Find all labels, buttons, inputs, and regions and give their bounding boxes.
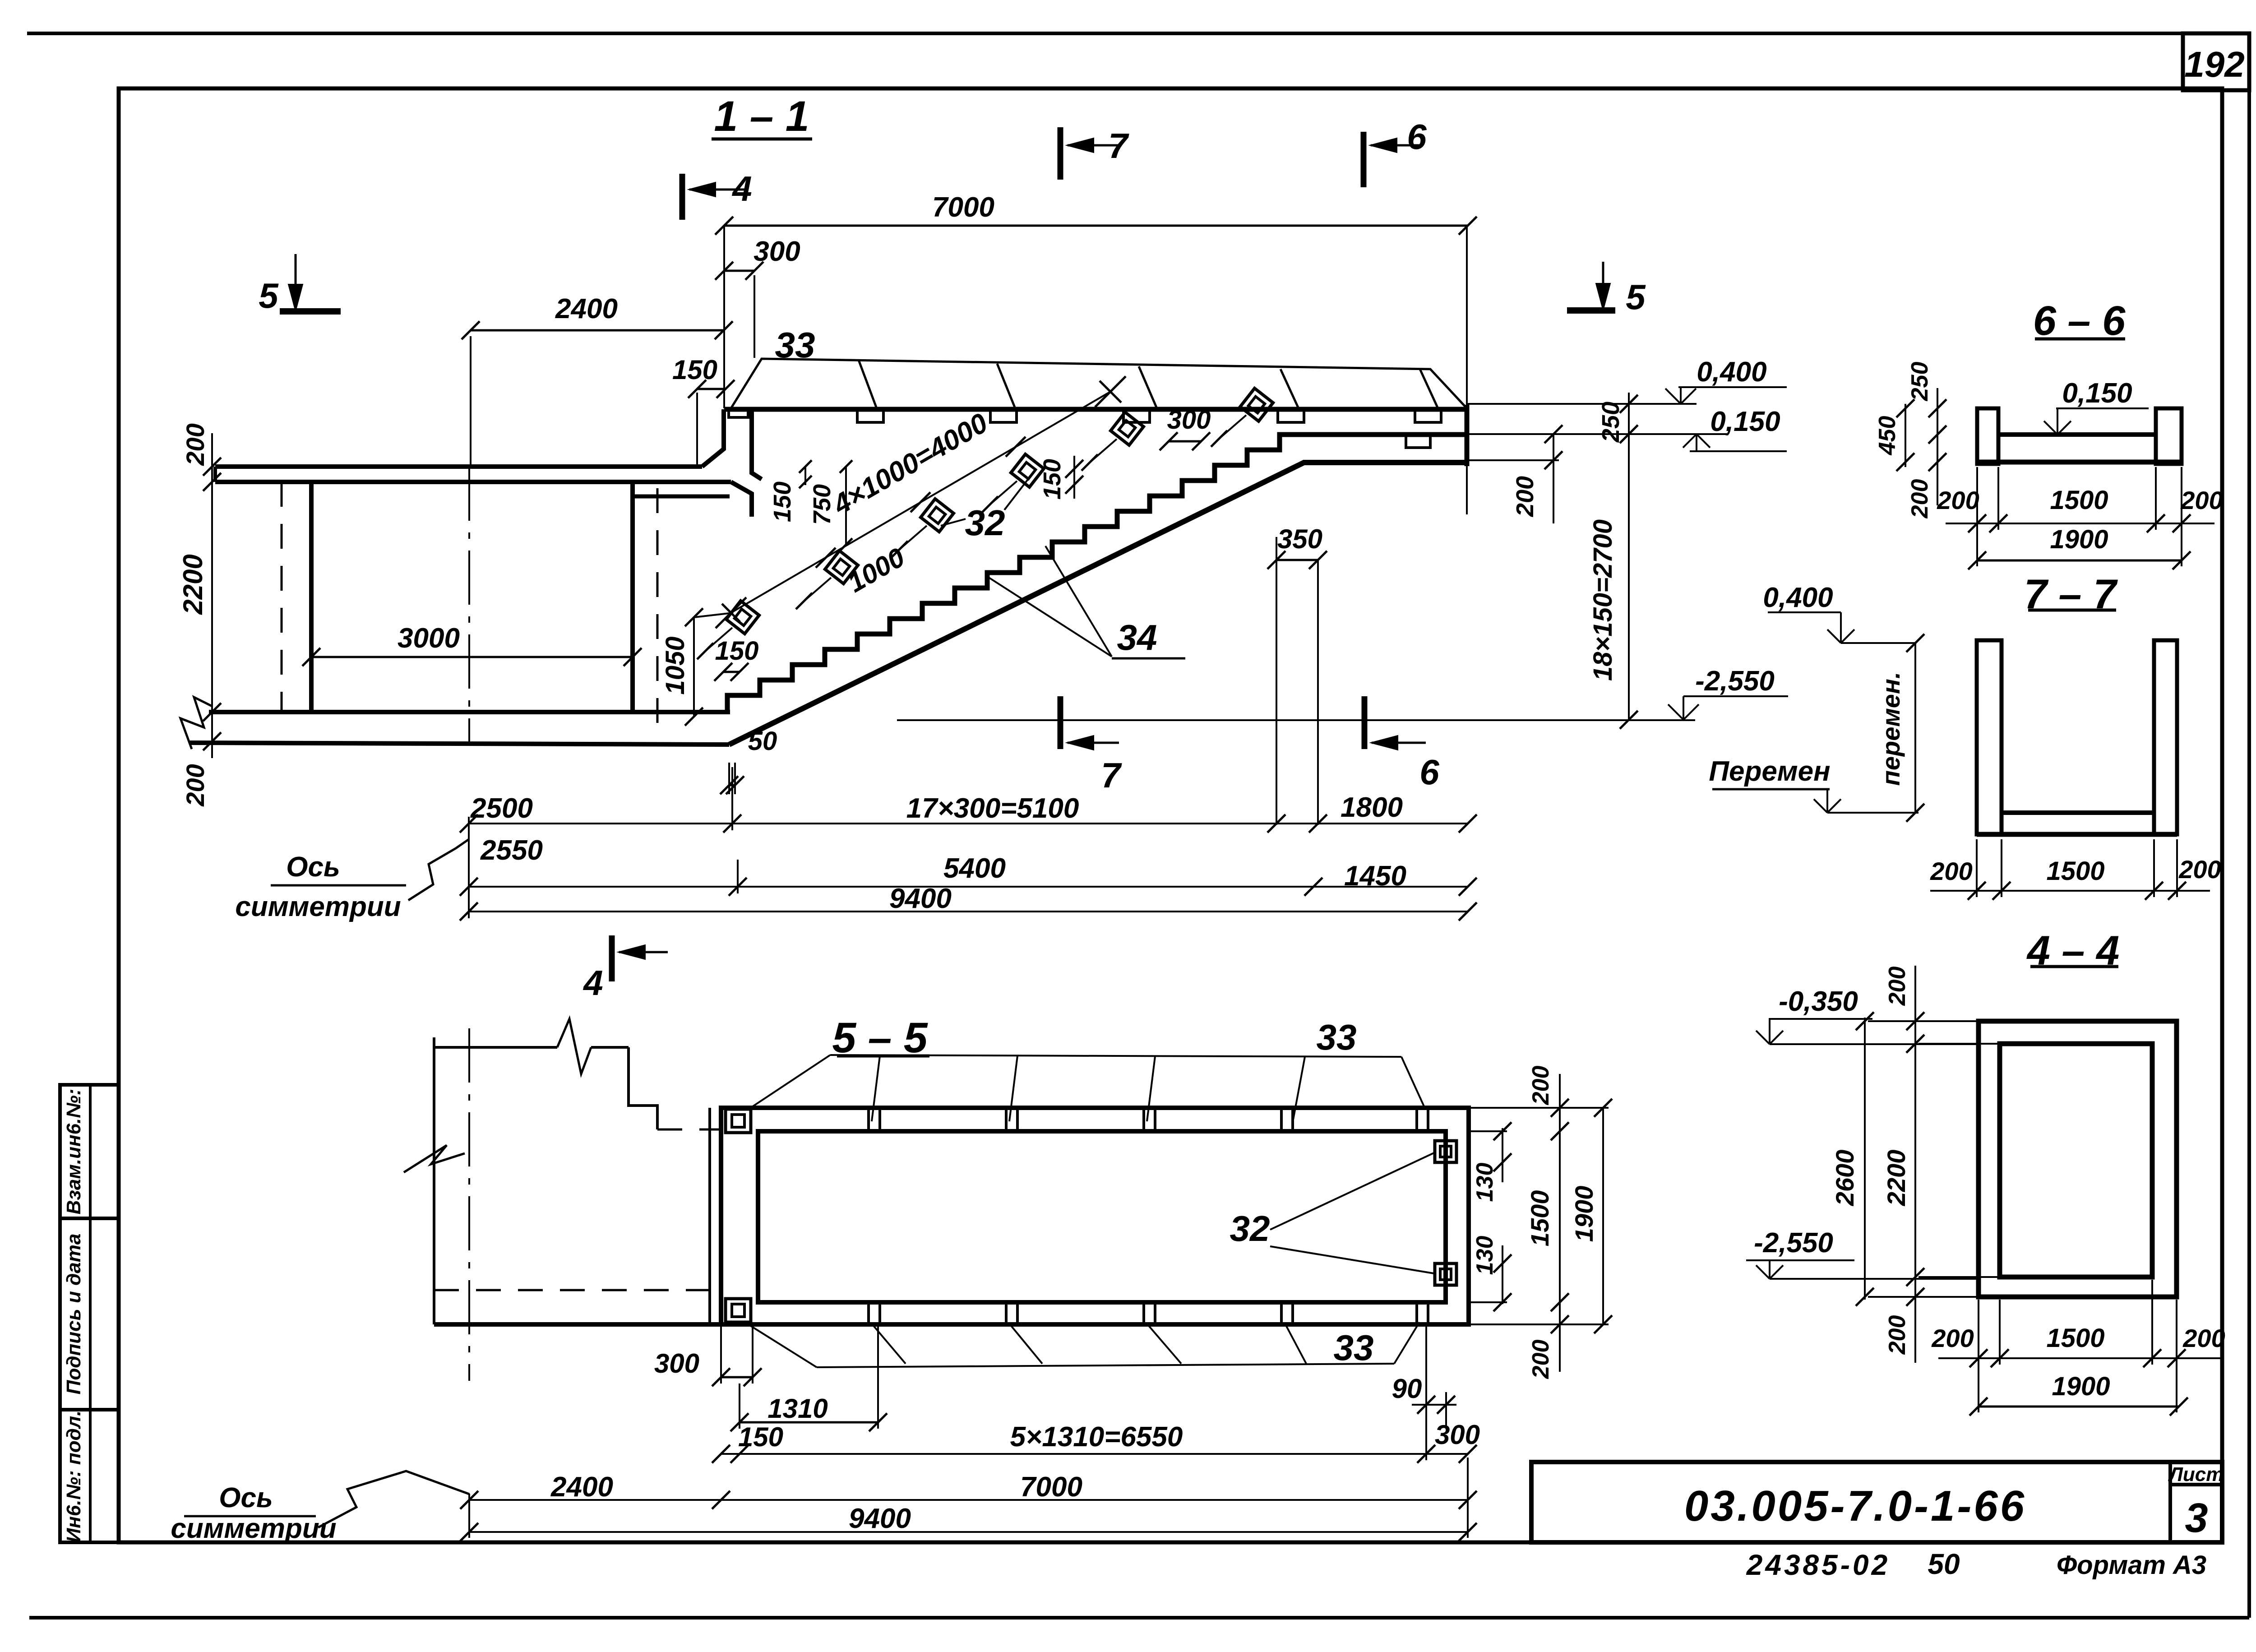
svg-text:200: 200	[181, 423, 209, 466]
dim 1900 plan	[1602, 1108, 1604, 1324]
svg-text:200: 200	[1931, 1324, 1974, 1352]
svg-text:1900: 1900	[1570, 1186, 1598, 1242]
level mark 0.150	[1696, 434, 1697, 451]
svg-text:1500: 1500	[2046, 1323, 2104, 1353]
level mark -2.550	[1683, 696, 1684, 720]
extension lines right plan	[1469, 1107, 1609, 1109]
svg-text:200: 200	[1528, 1340, 1554, 1379]
svg-text:150: 150	[1039, 459, 1066, 500]
svg-text:7000: 7000	[1020, 1472, 1082, 1503]
connector 1050 to slope	[694, 613, 733, 617]
dim chain1 line	[469, 823, 1468, 824]
svg-text:450: 450	[1874, 416, 1900, 456]
svg-text:3000: 3000	[398, 623, 460, 654]
svg-text:200: 200	[2178, 855, 2221, 884]
svg-text:300: 300	[754, 236, 800, 267]
extension line x3253	[1466, 226, 1468, 514]
4-4 outer rect	[1979, 1021, 2177, 1297]
weld plate plan TR	[1435, 1141, 1456, 1162]
6-6 dim 1900	[1977, 560, 2182, 562]
svg-text:7000: 7000	[932, 192, 994, 223]
svg-text:50: 50	[748, 727, 777, 756]
section marker 4 bottom	[609, 935, 615, 981]
dim 130 upper	[1502, 1128, 1503, 1182]
svg-text:33: 33	[1317, 1017, 1357, 1057]
top band joints	[867, 1108, 870, 1131]
landing left edge	[213, 467, 217, 482]
svg-text:200: 200	[1937, 486, 1979, 514]
embedded plate P2	[825, 551, 858, 584]
4-4 inner rect	[2000, 1044, 2152, 1277]
building outline left vertical	[433, 1037, 435, 1324]
svg-text:150: 150	[769, 481, 796, 522]
dim chain plan 2400 / 7000	[469, 1499, 1468, 1501]
svg-text:03.005-7.0-1-66: 03.005-7.0-1-66	[1684, 1482, 2026, 1530]
flight soffit	[729, 463, 1468, 745]
weld rect 3	[1123, 411, 1150, 422]
4-4 extension lines top	[1868, 1020, 1976, 1022]
title block	[1531, 1462, 2222, 1542]
dim 3000	[311, 656, 633, 658]
dim 7000 line	[724, 225, 1468, 227]
6-6 dim 250 and 200	[1937, 388, 1938, 505]
embedded plate P5	[1111, 412, 1144, 445]
building wall line 1	[708, 1108, 711, 1324]
svg-text:1 – 1: 1 – 1	[714, 93, 809, 140]
band joint 5	[1420, 369, 1438, 408]
dim 350	[1276, 559, 1318, 561]
svg-text:1900: 1900	[2052, 1372, 2110, 1401]
svg-text:3: 3	[2185, 1495, 2208, 1541]
dim 150 landing nosing	[697, 388, 726, 390]
extension line x1605	[723, 226, 725, 408]
level -2.550 line right	[1468, 719, 1695, 721]
building wall line 2	[719, 1108, 721, 1324]
7-7 bottom slab	[2002, 810, 2154, 815]
6-6 right wall	[2156, 408, 2182, 464]
svg-text:750: 750	[809, 484, 836, 525]
pit centerline	[468, 467, 470, 745]
landing slab bottom	[215, 480, 731, 484]
embedded plate P6	[1240, 389, 1273, 421]
svg-text:7: 7	[1108, 126, 1129, 166]
svg-text:Формат А3: Формат А3	[2057, 1550, 2206, 1580]
svg-text:2500: 2500	[470, 793, 533, 824]
svg-text:300: 300	[1167, 405, 1211, 435]
plan centerline	[468, 1028, 470, 1381]
floor break symbol	[180, 697, 212, 749]
dim 2200	[211, 482, 213, 712]
7-7 left wall	[1977, 640, 2002, 834]
7-7 right wall	[2154, 640, 2177, 834]
svg-text:150: 150	[672, 355, 717, 385]
left attribute table	[60, 1085, 119, 1542]
svg-text:300: 300	[1435, 1420, 1480, 1450]
svg-text:0,150: 0,150	[2062, 378, 2132, 409]
svg-text:200: 200	[1884, 1315, 1910, 1355]
dim chain3 line 9400	[469, 911, 1468, 912]
section marker 5 right	[1602, 262, 1604, 304]
extension x1623	[731, 767, 733, 830]
svg-text:0,150: 0,150	[1710, 406, 1780, 437]
pit right wall hidden face	[656, 488, 659, 740]
pit right wall	[630, 482, 635, 712]
section marker 5 left	[295, 254, 297, 305]
svg-text:7: 7	[1101, 755, 1122, 795]
pit plan inner rect	[758, 1131, 1446, 1302]
chain left connector	[468, 817, 470, 918]
6-6 dim 450	[1905, 404, 1906, 467]
4-4 dim 2200	[1914, 1047, 1916, 1282]
sheet outer right border	[2247, 33, 2251, 1618]
dim chain plan 9400	[469, 1531, 1468, 1533]
svg-text:симметрии: симметрии	[171, 1513, 336, 1544]
dim chain 150 / 5x1310 / 90 / 300	[721, 1453, 1468, 1455]
svg-text:1450: 1450	[1344, 861, 1406, 892]
svg-text:2600: 2600	[1831, 1150, 1859, 1207]
break arrow left	[404, 1145, 465, 1172]
dim 150 riser	[1073, 456, 1075, 499]
svg-text:5: 5	[1626, 277, 1646, 317]
band joint 1	[859, 360, 877, 408]
svg-text:2200: 2200	[178, 554, 208, 615]
svg-text:6: 6	[1419, 752, 1439, 792]
dim 50	[728, 763, 730, 794]
svg-text:4: 4	[731, 169, 752, 208]
weld rect 4	[1278, 411, 1304, 422]
band 33 bottom thick line 0.400	[724, 407, 1468, 412]
svg-text:Ось: Ось	[219, 1482, 273, 1513]
dim 150 lower flight	[723, 671, 740, 673]
svg-text:Взам.ин6.№:: Взам.ин6.№:	[63, 1089, 85, 1215]
4-4 dim 1900	[1979, 1406, 2179, 1408]
svg-text:90: 90	[1392, 1374, 1422, 1404]
svg-text:50: 50	[1928, 1548, 1960, 1580]
svg-text:200: 200	[1907, 479, 1933, 519]
svg-text:200: 200	[181, 764, 209, 806]
svg-text:200: 200	[1528, 1066, 1554, 1106]
pit left wall	[309, 482, 314, 712]
svg-text:-2,550: -2,550	[1695, 666, 1775, 697]
svg-text:1500: 1500	[2050, 486, 2108, 515]
weld rect 5	[1415, 411, 1441, 422]
dim 2400	[471, 329, 724, 332]
svg-text:1310: 1310	[767, 1393, 828, 1424]
svg-text:5400: 5400	[943, 853, 1006, 884]
svg-text:200: 200	[2182, 1324, 2225, 1352]
4-4 dim 200 bottom	[1914, 1282, 1916, 1363]
level -2.550 line	[897, 719, 1468, 721]
dim 150 first riser label	[804, 467, 806, 485]
svg-text:9400: 9400	[849, 1503, 911, 1534]
svg-text:130: 130	[1472, 1236, 1498, 1275]
break symbol top	[557, 1019, 591, 1074]
dim 1050	[693, 617, 695, 717]
svg-text:300: 300	[654, 1348, 699, 1379]
dim right chain 200-1500-200	[1559, 1074, 1561, 1372]
svg-text:Подпись и дата: Подпись и дата	[63, 1234, 85, 1395]
svg-text:1050: 1050	[661, 636, 690, 694]
svg-text:2200: 2200	[1882, 1150, 1910, 1207]
extension line x1672	[754, 275, 755, 358]
dim 300 top	[724, 270, 754, 272]
building notch	[629, 1047, 657, 1129]
pit left wall hidden face	[281, 482, 283, 712]
svg-text:192: 192	[2184, 44, 2244, 84]
hidden edge dashed 2	[434, 1289, 710, 1291]
svg-text:200: 200	[1512, 476, 1539, 517]
dim 300 plan left	[721, 1376, 753, 1379]
svg-text:17×300=5100: 17×300=5100	[906, 793, 1079, 824]
bottom band joints	[867, 1302, 870, 1324]
4-4 dim 200 top	[1914, 966, 1916, 1047]
dim 130 lower	[1502, 1245, 1503, 1304]
4-4 dim 2600	[1864, 1018, 1866, 1300]
svg-text:200: 200	[1884, 967, 1910, 1006]
svg-text:18×150=2700: 18×150=2700	[1588, 519, 1618, 681]
svg-text:150: 150	[715, 636, 759, 666]
svg-text:33: 33	[1334, 1328, 1374, 1368]
svg-text:1900: 1900	[2050, 525, 2108, 554]
axis leader upper	[408, 839, 469, 900]
svg-text:33: 33	[775, 325, 815, 365]
6-6 bottom dims	[1946, 523, 2214, 524]
6-6 left wall	[1977, 408, 1998, 464]
section marker 4 top	[680, 174, 685, 220]
leader BL plate	[749, 1325, 817, 1367]
sheet outer bottom border	[29, 1616, 2249, 1620]
svg-text:2400: 2400	[550, 1472, 613, 1503]
basement floor top	[209, 710, 730, 714]
building outline top	[434, 1046, 557, 1049]
svg-text:Ось: Ось	[286, 851, 340, 883]
dim 300 tread	[1169, 440, 1201, 443]
svg-text:32: 32	[965, 503, 1005, 543]
weld rect 1	[857, 411, 883, 422]
svg-text:34: 34	[1117, 617, 1157, 657]
frame right double line	[2220, 90, 2224, 1542]
svg-text:-2,550: -2,550	[1754, 1227, 1833, 1259]
4-4 bottom dims	[1938, 1357, 2222, 1359]
dim 750	[845, 467, 847, 545]
dim 250 right	[1628, 393, 1630, 451]
level 0.400 line	[1468, 403, 1697, 405]
svg-text:перемен.: перемен.	[1877, 672, 1905, 786]
dim 18x150=2700	[1628, 451, 1630, 720]
svg-text:5: 5	[259, 276, 279, 315]
section marker 7 bottom	[1058, 696, 1063, 749]
svg-text:350: 350	[1277, 524, 1322, 554]
stair steps zigzag	[727, 435, 1466, 711]
svg-text:0,400: 0,400	[1763, 582, 1833, 613]
svg-text:1800: 1800	[1341, 792, 1403, 823]
embedded plate P4	[1011, 454, 1044, 487]
section marker 6 top	[1361, 132, 1367, 187]
svg-text:симметрии: симметрии	[235, 891, 401, 922]
landing nosing bottom chamfer	[731, 482, 752, 517]
axis leader lower	[318, 1471, 469, 1527]
band joint 2	[997, 364, 1015, 408]
svg-text:5×1310=6550: 5×1310=6550	[1010, 1421, 1183, 1453]
level mark 0.400	[1680, 387, 1682, 404]
dim 200 floor slab	[211, 712, 213, 758]
svg-text:Лист: Лист	[2168, 1463, 2224, 1485]
6-6 slab	[1998, 432, 2156, 437]
svg-text:6: 6	[1407, 117, 1427, 157]
svg-text:2550: 2550	[480, 835, 543, 866]
dim 1310	[740, 1421, 878, 1424]
svg-text:4: 4	[582, 963, 603, 1003]
basement floor bottom	[189, 743, 729, 745]
weld rect 0	[729, 409, 748, 417]
page number box 192	[2183, 33, 2249, 90]
svg-text:Ин6.№: подл.: Ин6.№: подл.	[63, 1411, 85, 1543]
pit ceiling recess line	[633, 495, 730, 499]
landing nosing top chamfer	[702, 409, 724, 467]
embedded plate P1	[726, 601, 759, 634]
7-7 dim peremen vertical	[1914, 643, 1916, 813]
dim 90	[1412, 1404, 1456, 1406]
svg-text:150: 150	[738, 1422, 783, 1452]
level 0.150 line	[1468, 433, 1727, 435]
svg-text:250: 250	[1907, 362, 1933, 402]
svg-text:-0,350: -0,350	[1779, 986, 1858, 1017]
svg-text:Перемен: Перемен	[1709, 756, 1830, 787]
weld plate plan BL	[726, 1299, 751, 1322]
7-7 bottom dims	[1930, 890, 2210, 892]
svg-text:2400: 2400	[555, 293, 618, 324]
landing edge beam face	[752, 407, 762, 479]
extension x1635 chain2	[737, 860, 739, 893]
band joint 3	[1139, 366, 1157, 408]
extension 2400 left	[470, 336, 472, 467]
section marker 6 bottom	[1362, 696, 1368, 749]
svg-text:250: 250	[1597, 402, 1624, 443]
band joint 4	[1281, 369, 1299, 408]
section marker 7 top	[1058, 127, 1063, 180]
hidden edge dashed 1	[657, 1129, 721, 1131]
dim 200 right	[1553, 434, 1554, 523]
svg-text:130: 130	[1472, 1163, 1498, 1202]
pit plan outer rect	[721, 1108, 1469, 1324]
bottom long line	[434, 1322, 721, 1327]
svg-text:0,400: 0,400	[1697, 356, 1766, 388]
weld rect 2	[990, 411, 1017, 422]
svg-text:1500: 1500	[1526, 1190, 1554, 1247]
svg-text:6 – 6: 6 – 6	[2033, 298, 2126, 344]
weld plate plan BR	[1435, 1263, 1456, 1285]
sheet outer top border	[27, 32, 2249, 35]
weld rect 6	[1406, 436, 1430, 448]
svg-text:24385-02: 24385-02	[1746, 1549, 1890, 1581]
embedded plate P3	[921, 499, 954, 532]
weld plate plan TL	[726, 1109, 751, 1133]
svg-text:9400: 9400	[889, 883, 952, 914]
landing slab top	[215, 464, 702, 469]
flight right edge vertical	[1465, 405, 1470, 466]
svg-text:32: 32	[1230, 1208, 1270, 1249]
dim chain2 line	[469, 886, 1468, 888]
svg-text:200: 200	[2180, 486, 2223, 514]
band 33 top edge	[731, 359, 1468, 409]
svg-text:1500: 1500	[2046, 856, 2104, 886]
svg-text:200: 200	[1930, 857, 1972, 885]
dim 4x1000 sloped line	[731, 392, 1110, 613]
